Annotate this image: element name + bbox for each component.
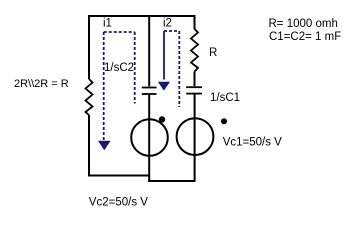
mesh current i1 loop left dashed: [103, 32, 105, 140]
wire bottom right: [148, 180, 195, 182]
svg-text:R: R: [209, 47, 217, 59]
wire bottom left: [88, 175, 149, 177]
mesh current i1 arrowhead: [98, 141, 111, 151]
capacitor C2 value 1/sC2 plates: [142, 87, 157, 89]
polarity dot for source Vc1: [221, 118, 227, 124]
wire left vertical upper: [88, 15, 90, 79]
svg-text:Vc2=50/s V: Vc2=50/s V: [89, 196, 148, 208]
wire top horizontal: [89, 15, 195, 17]
wire middle vertical upper: [148, 15, 150, 86]
svg-text:2R\\2R = R: 2R\\2R = R: [14, 78, 69, 90]
svg-text:1/sC2: 1/sC2: [104, 62, 134, 74]
wire right vertical middle: [194, 72, 196, 87]
mesh current i2 loop left solid: [163, 31, 165, 80]
mesh current i2 loop right dashed: [178, 31, 180, 107]
mesh current i2 arrowhead: [158, 82, 170, 91]
wire middle vertical lower through source: [148, 95, 150, 182]
source Vc2 circle: [131, 119, 168, 156]
source Vc1 circle: [177, 118, 214, 155]
resistor 2R||2R left branch: [86, 79, 93, 115]
svg-text:Vc1=50/s V: Vc1=50/s V: [223, 137, 282, 149]
mesh current i1 loop right dashed: [134, 32, 136, 104]
wire right vertical lower through source: [194, 94, 196, 181]
resistor R right branch: [191, 29, 198, 72]
svg-text:i1: i1: [103, 18, 112, 30]
wire right vertical upper: [194, 15, 196, 29]
svg-text:R= 1000 omh: R= 1000 omh: [269, 18, 338, 30]
svg-text:1/sC1: 1/sC1: [210, 92, 240, 104]
svg-text:C1=C2= 1 mF: C1=C2= 1 mF: [269, 31, 341, 43]
mesh current i1 loop top dashed: [104, 31, 135, 33]
polarity dot for source Vc2: [159, 116, 165, 122]
mesh current i2 loop top dashed: [164, 30, 179, 32]
capacitor C1 value 1/sC1 plates: [186, 86, 202, 88]
svg-text:i2: i2: [163, 18, 172, 30]
wire left vertical lower: [88, 115, 90, 176]
